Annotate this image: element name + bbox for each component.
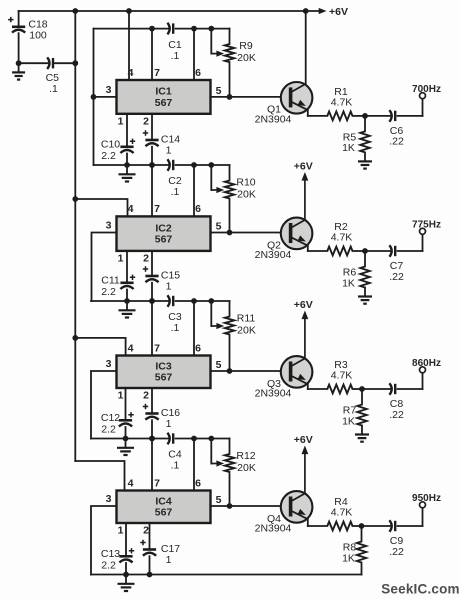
svg-text:R12: R12 (236, 450, 255, 462)
svg-text:C14: C14 (161, 133, 180, 145)
svg-text:100: 100 (29, 30, 47, 42)
node: output junction (stage 1) (362, 113, 368, 119)
node: bus1 wiper junction (208, 26, 214, 32)
node: R10 / pin 5 junction (227, 230, 233, 236)
svg-text:3: 3 (106, 493, 112, 505)
op-amp/IC IC2 567 tone decoder (117, 216, 211, 251)
svg-text:+6V: +6V (329, 6, 348, 18)
wire: IC1 pin 4 to +6V rail (128, 11, 130, 80)
wire: IC4 pin 6 (193, 439, 195, 491)
svg-text:1K: 1K (342, 415, 355, 427)
node: bus1 pin7 junction (149, 26, 155, 32)
capacitor C13 2.2uF electrolytic (pin 1) (101, 523, 134, 575)
node: rail branch to IC3 pin 4 (72, 335, 78, 341)
wire: IC1 pin 7 (151, 29, 153, 80)
svg-text:20K: 20K (237, 52, 256, 64)
svg-text:567: 567 (155, 97, 173, 109)
transistor Q1 2N3904 NPN (255, 82, 313, 125)
resistor R1 4.7K (327, 86, 352, 120)
capacitor C9 0.22uF (389, 520, 404, 558)
capacitor C16 1uF electrolytic (pin 2) (143, 388, 180, 439)
svg-text:.1: .1 (171, 460, 180, 472)
wire: pin 5 to Q1 base (211, 96, 283, 98)
wire: IC3 pin 6 (193, 301, 195, 356)
node: bus2 pin7 junction (149, 162, 155, 168)
wire: C7 to output terminal (398, 235, 423, 251)
node: bus4 wiper junction (208, 436, 214, 442)
svg-text:6: 6 (195, 477, 201, 489)
svg-text:20K: 20K (237, 462, 256, 474)
wire: timing bus 1 (94, 28, 230, 30)
capacitor C7 0.22uF (389, 245, 404, 283)
wire: Q4 emitter to output line (308, 519, 328, 526)
node: output junction (stage 2) (362, 248, 368, 254)
svg-text:4.7K: 4.7K (331, 97, 353, 109)
svg-text:4: 4 (128, 67, 134, 79)
capacitor C15 1uF electrolytic (pin 2) (143, 251, 180, 301)
transistor Q3 2N3904 NPN (255, 356, 313, 399)
watermark SeekIC.com (381, 582, 460, 597)
svg-text:2N3904: 2N3904 (255, 113, 292, 125)
ground (below R7) (355, 426, 369, 442)
capacitor C10 2.2uF electrolytic (pin 1) (101, 114, 135, 165)
resistor R3 4.7K (327, 359, 352, 393)
svg-text:7: 7 (154, 203, 160, 215)
node: pin2 cap junction (bus below IC4) (147, 572, 153, 578)
svg-text:2.2: 2.2 (101, 424, 116, 436)
pin labels IC4 (106, 477, 222, 536)
svg-text:+6V: +6V (294, 299, 313, 311)
ground (below C18) (12, 63, 25, 79)
svg-text:2.2: 2.2 (101, 150, 116, 162)
capacitor C5 0.1uF (19, 57, 76, 95)
svg-text:2.2: 2.2 (101, 286, 116, 298)
svg-text:C13: C13 (101, 548, 120, 560)
svg-text:2N3904: 2N3904 (255, 249, 292, 261)
wire: IC1 pin 3 (94, 96, 117, 98)
capacitor C14 1uF electrolytic (pin 2) (143, 114, 180, 165)
svg-text:.22: .22 (389, 409, 404, 421)
svg-text:4: 4 (128, 477, 134, 489)
resistor R10 20K trimmer (225, 165, 256, 233)
output terminal 775Hz (412, 220, 441, 235)
wire: R1 to junction (353, 115, 391, 117)
wire: IC2 pin 7 (151, 165, 153, 216)
wire: timing bus 2 (94, 164, 230, 166)
resistor R5 1K (342, 116, 370, 154)
+6V supply arrow (stage 4) (294, 434, 313, 493)
transistor Q4 2N3904 NPN (255, 491, 313, 534)
node: pin2 cap junction (bus below IC2) (149, 298, 155, 304)
ground (bus below IC4) (118, 575, 135, 592)
svg-text:5: 5 (216, 221, 222, 233)
node: pin1 cap / ground junction (bus below IC2) (124, 298, 130, 304)
pin labels IC1 (106, 67, 222, 128)
node: bus2 pin6 junction (191, 162, 197, 168)
svg-text:C16: C16 (161, 407, 180, 419)
wire: Q1 emitter to output line (308, 110, 328, 116)
+6V label arrow (top right) (306, 6, 348, 18)
svg-text:567: 567 (155, 372, 173, 384)
node: rail branch to IC2 pin 4 (72, 196, 78, 202)
op-amp/IC IC4 567 tone decoder (117, 491, 211, 524)
wire: C8 to output terminal (398, 373, 423, 389)
svg-text:5: 5 (216, 494, 222, 506)
node: bus4 pin6 junction (191, 436, 197, 442)
svg-text:7: 7 (154, 342, 160, 354)
svg-text:20K: 20K (237, 189, 256, 201)
svg-text:.1: .1 (49, 83, 58, 95)
svg-text:700Hz: 700Hz (412, 84, 441, 95)
node: top rail junction at C18 (72, 8, 78, 14)
svg-text:C17: C17 (161, 543, 180, 555)
wire: IC3 pin 7 (151, 301, 153, 356)
capacitor C4 0.1uF (167, 433, 181, 472)
svg-text:1K: 1K (342, 277, 355, 289)
wiper arrow of R12 (211, 439, 224, 467)
svg-text:4.7K: 4.7K (331, 370, 353, 382)
node: pin1 cap / ground junction (bus below IC1) (124, 162, 130, 168)
wire: input bus pin3 IC1 (bus1 - bus2) (93, 29, 95, 165)
svg-text:2: 2 (143, 253, 149, 265)
svg-text:.22: .22 (389, 271, 404, 283)
ground (bus below IC3) (117, 439, 134, 456)
capacitor C11 2.2uF electrolytic (pin 1) (101, 251, 135, 301)
resistor R9 20K trimmer (225, 29, 256, 97)
node: output junction (stage 3) (359, 386, 365, 392)
op-amp/IC IC1 567 tone decoder (117, 80, 211, 114)
svg-text:1: 1 (166, 418, 172, 430)
node: C18 / C5 junction (16, 60, 22, 66)
svg-text:2: 2 (143, 390, 149, 402)
wire: R2 to junction (353, 250, 391, 252)
node: top rail junction at IC1 pin 4 (126, 8, 132, 14)
svg-text:1: 1 (166, 281, 172, 293)
pin labels IC2 (106, 203, 222, 264)
svg-text:4.7K: 4.7K (331, 507, 353, 519)
power rail +6V (top) (19, 10, 306, 12)
resistor R12 20K trimmer (225, 439, 256, 507)
wire: R3 to junction (353, 388, 391, 390)
svg-text:6: 6 (195, 67, 201, 79)
wiper arrow of R9 (211, 29, 224, 57)
wire: IC4 pin 7 (151, 439, 153, 491)
resistor R7 1K (342, 389, 367, 427)
wire: pin 5 to Q3 base (211, 370, 283, 372)
output terminal 700Hz (412, 84, 441, 99)
svg-text:4.7K: 4.7K (331, 232, 353, 244)
svg-text:2.2: 2.2 (101, 560, 116, 572)
node: R11 / pin 5 junction (227, 368, 233, 374)
node: R12 / pin 5 junction (227, 503, 233, 509)
svg-text:3: 3 (106, 84, 112, 96)
wiper arrow of R10 (211, 165, 224, 193)
svg-text:950Hz: 950Hz (412, 493, 441, 504)
svg-text:7: 7 (154, 67, 160, 79)
wire: Q3 emitter to output line (308, 384, 328, 389)
output terminal 950Hz (412, 493, 441, 508)
node: pin2 cap junction (bus below IC1) (149, 162, 155, 168)
wire: +6V left distribution rail (74, 11, 76, 461)
svg-text:1: 1 (118, 115, 124, 127)
svg-text:4: 4 (128, 203, 134, 215)
node: IC1 pin 3 junction (91, 94, 97, 100)
wire: IC2 pin 3 down-link (92, 233, 117, 302)
svg-text:1: 1 (118, 253, 124, 265)
node: bus1 pin6 junction (191, 26, 197, 32)
wiper arrow of R11 (211, 301, 224, 329)
node: +6V rail / C5 junction (72, 60, 78, 66)
svg-text:567: 567 (155, 234, 173, 246)
capacitor C8 0.22uF (389, 383, 404, 421)
wire: IC4 pin 3 down-link (91, 506, 117, 575)
svg-text:C18: C18 (28, 18, 47, 30)
node: bus4 pin7 junction (149, 436, 155, 442)
op-amp/IC IC3 567 tone decoder (117, 356, 211, 389)
wire: rail branch to IC2 pin 4 (75, 199, 127, 216)
+6V supply arrow (stage 3) (294, 299, 313, 358)
+6V supply arrow (stage 2) (294, 161, 313, 220)
capacitor C6 0.22uF (389, 110, 404, 148)
svg-text:5: 5 (216, 359, 222, 371)
node: bus3 pin7 junction (149, 298, 155, 304)
transistor Q2 2N3904 NPN (255, 218, 313, 261)
capacitor C12 2.2uF electrolytic (pin 1) (101, 388, 134, 439)
svg-text:20K: 20K (237, 325, 256, 337)
svg-text:3: 3 (106, 220, 112, 232)
node: pin1 cap / ground junction (bus below IC3) (123, 436, 129, 442)
wire: timing bus 4 (91, 438, 230, 440)
node: top rail junction at Q1 collector (303, 8, 309, 14)
svg-text:.1: .1 (171, 186, 180, 198)
wire: Q2 emitter to output line (308, 246, 328, 251)
resistor R4 4.7K (327, 496, 352, 530)
svg-text:R9: R9 (239, 40, 253, 52)
svg-text:R11: R11 (237, 312, 256, 324)
svg-text:7: 7 (154, 477, 160, 489)
wire: pin 5 to Q4 base (211, 505, 283, 507)
svg-text:4: 4 (128, 342, 134, 354)
wire: bottom return bus (91, 574, 362, 576)
node: R9 / pin 5 junction (227, 94, 233, 100)
svg-text:860Hz: 860Hz (412, 358, 441, 369)
wire: IC2 pin 6 (193, 165, 195, 216)
capacitor C1 0.1uF (167, 23, 181, 62)
wire: R4 to junction (353, 525, 391, 527)
node: pin2 cap junction (bus below IC3) (149, 436, 155, 442)
svg-text:SeekIC.com: SeekIC.com (381, 582, 460, 597)
wire: R8 to input return bus (361, 563, 363, 575)
wire: pin 5 to Q2 base (211, 232, 283, 234)
svg-text:775Hz: 775Hz (412, 220, 441, 231)
node: bus2 wiper junction (208, 162, 214, 168)
svg-text:.22: .22 (389, 546, 404, 558)
capacitor C3 0.1uF (167, 295, 181, 334)
svg-text:2N3904: 2N3904 (255, 522, 292, 534)
capacitor C2 0.1uF (167, 159, 181, 198)
wire: IC1 pin 6 (193, 29, 195, 80)
svg-text:1K: 1K (342, 142, 355, 154)
svg-text:2: 2 (143, 525, 149, 537)
svg-text:2: 2 (143, 115, 149, 127)
wire: rail branch to IC3 pin 4 (75, 338, 125, 356)
resistor R11 20K trimmer (225, 301, 256, 371)
svg-text:+6V: +6V (294, 434, 313, 446)
node: pin1 cap / ground junction (bus below IC4) (123, 572, 129, 578)
wire: rail bottom branch to IC4 pin 4 (75, 461, 124, 491)
svg-text:C11: C11 (101, 275, 120, 287)
output terminal 860Hz (412, 358, 441, 373)
pin labels IC3 (106, 342, 222, 401)
resistor R6 1K (342, 251, 370, 289)
ground (bus below IC2) (119, 301, 136, 318)
ground (below R5) (358, 152, 372, 168)
resistor R8 1K (342, 526, 366, 564)
ground (below R6) (358, 288, 372, 304)
ground (bus below IC1) (119, 165, 136, 182)
wire: Q1 collector to +6V rail (305, 11, 307, 84)
node: bus3 wiper junction (208, 298, 214, 304)
node: output junction (stage 4) (359, 523, 365, 529)
wire: IC3 pin 3 down-link (91, 371, 117, 439)
svg-text:R10: R10 (236, 176, 255, 188)
svg-text:C12: C12 (101, 412, 120, 424)
svg-text:6: 6 (195, 203, 201, 215)
svg-text:.22: .22 (389, 136, 404, 148)
wire: C6 to output terminal (398, 99, 423, 116)
svg-text:C10: C10 (101, 139, 120, 151)
svg-text:1K: 1K (342, 552, 355, 564)
svg-text:1: 1 (166, 145, 172, 157)
svg-text:2N3904: 2N3904 (255, 387, 292, 399)
resistor R2 4.7K (327, 221, 352, 255)
capacitor C18 100uF electrolytic (8, 11, 48, 63)
svg-text:.1: .1 (171, 322, 180, 334)
svg-text:6: 6 (195, 342, 201, 354)
svg-text:1: 1 (166, 554, 172, 566)
svg-text:.1: .1 (171, 50, 180, 62)
wire: timing bus 3 (91, 300, 230, 302)
svg-text:1: 1 (118, 525, 124, 537)
svg-text:3: 3 (106, 358, 112, 370)
node: bus3 pin6 junction (191, 298, 197, 304)
svg-text:+6V: +6V (294, 161, 313, 173)
svg-text:567: 567 (155, 507, 173, 519)
svg-text:C15: C15 (161, 269, 180, 281)
svg-text:1: 1 (118, 390, 124, 402)
wire: C9 to output terminal (398, 508, 423, 526)
svg-text:5: 5 (216, 85, 222, 97)
capacitor C17 1uF electrolytic (pin 2) (140, 523, 180, 575)
